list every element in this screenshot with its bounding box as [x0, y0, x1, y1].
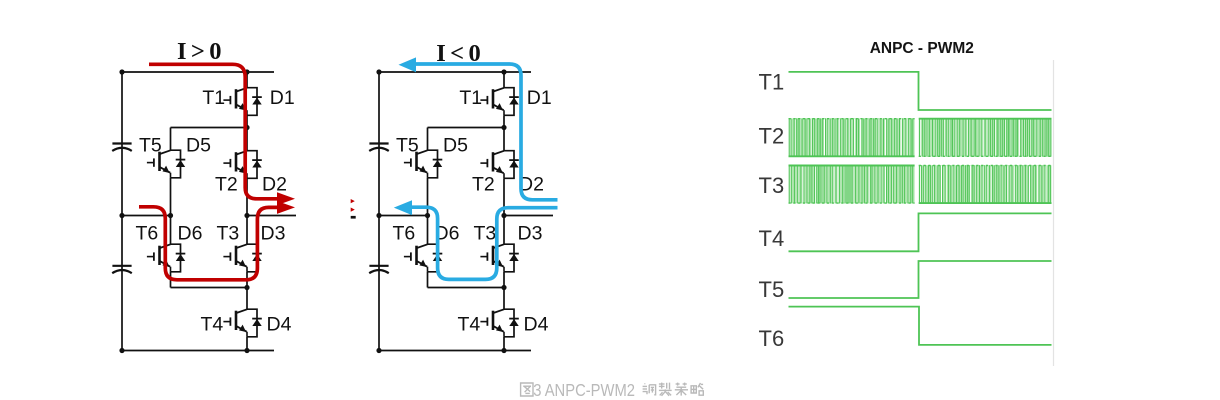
svg-text:D2: D2 — [262, 174, 287, 196]
svg-text:D1: D1 — [527, 87, 552, 109]
svg-text:T2: T2 — [759, 124, 785, 149]
svg-text:D4: D4 — [524, 314, 549, 336]
svg-text:T6: T6 — [136, 223, 159, 245]
svg-text:I>0: I>0 — [177, 38, 226, 65]
svg-text:T3: T3 — [474, 223, 497, 245]
svg-text:D5: D5 — [186, 134, 211, 156]
svg-text:T3: T3 — [217, 223, 240, 245]
svg-text:D6: D6 — [178, 223, 203, 245]
svg-text:T5: T5 — [759, 277, 785, 302]
svg-text:D3: D3 — [518, 223, 543, 245]
svg-text:T1: T1 — [759, 70, 785, 95]
svg-text:T1: T1 — [202, 87, 225, 109]
svg-text:T2: T2 — [215, 174, 238, 196]
svg-text:ANPC - PWM2: ANPC - PWM2 — [870, 40, 974, 57]
svg-text:T4: T4 — [201, 314, 224, 336]
svg-text:D5: D5 — [443, 134, 468, 156]
svg-text:T5: T5 — [139, 134, 162, 156]
svg-text:T1: T1 — [459, 87, 482, 109]
svg-text:T2: T2 — [472, 174, 495, 196]
svg-text:3 ANPC-PWM2: 3 ANPC-PWM2 — [533, 381, 635, 400]
svg-text:D4: D4 — [267, 314, 292, 336]
svg-text:D1: D1 — [270, 87, 295, 109]
svg-text:T4: T4 — [759, 226, 785, 251]
svg-text:T6: T6 — [759, 326, 785, 351]
svg-text:T4: T4 — [458, 314, 481, 336]
svg-text:D3: D3 — [261, 223, 286, 245]
svg-text:T6: T6 — [393, 223, 416, 245]
svg-text:T5: T5 — [396, 134, 419, 156]
svg-text:T3: T3 — [759, 173, 785, 198]
